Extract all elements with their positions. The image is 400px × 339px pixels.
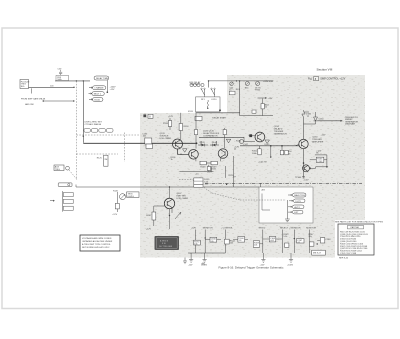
wire from plug-in bbox=[29, 86, 75, 88]
relay coil bbox=[201, 99, 217, 109]
swp control ref note bbox=[308, 77, 346, 81]
triangle D150 bbox=[265, 140, 270, 143]
supply leg G bbox=[308, 230, 318, 254]
svg-text:K120: K120 bbox=[212, 99, 218, 101]
divider box D159 bbox=[194, 178, 210, 186]
svg-text:+12V: +12V bbox=[321, 135, 327, 137]
option box 3 bbox=[63, 206, 73, 210]
svg-text:LEVEL: LEVEL bbox=[128, 196, 135, 198]
resistor R58 bbox=[229, 91, 235, 95]
wire comparator top rail bbox=[199, 136, 244, 138]
svg-text:TRIG: TRIG bbox=[255, 90, 260, 92]
pot arrow R168 bbox=[175, 212, 181, 219]
svg-text:TRIG: TRIG bbox=[55, 169, 60, 171]
box C63 on rail bbox=[252, 110, 256, 113]
svg-text:MONITOR: MONITOR bbox=[306, 228, 316, 230]
svg-text:Fig.: Fig. bbox=[308, 78, 312, 81]
label Q167 bbox=[177, 193, 189, 200]
knob range 1 bbox=[89, 86, 106, 90]
wire Q167 emitter bbox=[170, 208, 173, 230]
junction at relay out bbox=[219, 109, 221, 111]
switch S167 bbox=[58, 183, 72, 187]
svg-text:SET NORM LEVEL AT 0 VDC: SET NORM LEVEL AT 0 VDC bbox=[82, 246, 110, 249]
box delay start bbox=[195, 116, 227, 120]
transistor Q150 bbox=[255, 132, 265, 142]
pot R60 bbox=[229, 82, 234, 92]
svg-text:SEE PARTS LIST FOR SEMICONDUCT: SEE PARTS LIST FOR SEMICONDUCTOR TYPES bbox=[335, 221, 383, 224]
ground leg E2 bbox=[287, 253, 294, 266]
svg-text:+100V: +100V bbox=[287, 264, 294, 266]
svg-text:TP160: TP160 bbox=[295, 177, 302, 179]
junction dot bbox=[226, 184, 227, 185]
svg-text:DIAGRAM: DIAGRAM bbox=[345, 123, 355, 126]
svg-text:Section VIII: Section VIII bbox=[317, 67, 333, 71]
svg-text:+12V: +12V bbox=[260, 264, 266, 266]
ground leg A2 bbox=[188, 253, 225, 266]
dashed link mid bbox=[76, 134, 140, 136]
svg-text:SWP CONTROL +12V: SWP CONTROL +12V bbox=[320, 78, 345, 81]
wire relay feed bbox=[209, 81, 231, 88]
wire long vertical bbox=[239, 81, 241, 116]
option box 2 bbox=[63, 199, 73, 203]
resistor R149 bbox=[211, 161, 217, 168]
island ground bbox=[285, 200, 290, 222]
wire top rail gray bbox=[230, 80, 273, 82]
svg-text:MONITOR: MONITOR bbox=[203, 228, 213, 230]
capacitor C164 bbox=[263, 237, 283, 243]
resistor R64 bbox=[261, 99, 269, 116]
svg-text:R159: R159 bbox=[229, 175, 235, 177]
wire branch to zener bbox=[304, 112, 316, 124]
supply leg A bbox=[194, 230, 201, 254]
label R136 bbox=[171, 157, 177, 161]
svg-text:MS 8-17: MS 8-17 bbox=[313, 253, 322, 255]
capacitor C59 bbox=[58, 68, 63, 75]
cap below Q164 bbox=[302, 177, 305, 178]
label Q150 bbox=[274, 126, 287, 136]
dashed diag link bbox=[69, 170, 77, 180]
relay box K120 bbox=[196, 97, 220, 112]
supply leg B bbox=[205, 230, 206, 254]
svg-text:GENERATOR: GENERATOR bbox=[274, 132, 287, 135]
svg-text:AND SW: AND SW bbox=[25, 103, 33, 106]
wire Q160 base bbox=[295, 145, 299, 146]
svg-text:R167: R167 bbox=[146, 215, 152, 217]
knob range 2 bbox=[89, 92, 105, 96]
svg-text:DELAY TIME: DELAY TIME bbox=[96, 77, 109, 80]
wire emitter bus down bbox=[206, 163, 213, 172]
dashed diag to island bbox=[212, 193, 240, 200]
wire stub x211 up bbox=[212, 166, 226, 172]
wire left column bbox=[82, 81, 84, 143]
svg-text:+12V: +12V bbox=[168, 116, 174, 118]
wire Q160 collector bbox=[303, 117, 305, 139]
svg-text:DELAY START: DELAY START bbox=[213, 116, 228, 119]
ref box 8 bbox=[143, 114, 153, 118]
svg-text:R140: R140 bbox=[236, 141, 242, 143]
wire comparator collectors bbox=[196, 137, 225, 148]
svg-text:FOLLOWER: FOLLOWER bbox=[160, 138, 172, 140]
svg-text:+ CONTROL: + CONTROL bbox=[221, 228, 234, 230]
transistor Q160 bbox=[299, 139, 308, 148]
transistor Q167 bbox=[164, 198, 174, 208]
white island box bbox=[259, 187, 313, 223]
svg-text:+12V: +12V bbox=[191, 228, 197, 230]
svg-text:D145: D145 bbox=[265, 144, 271, 146]
diode D160 bbox=[302, 110, 312, 118]
pot B50 wafers bbox=[190, 83, 204, 86]
transistor Q133 bbox=[173, 139, 183, 149]
svg-text:TRIG'D: TRIG'D bbox=[258, 228, 265, 230]
supply leg F bbox=[294, 230, 295, 254]
svg-text:R134: R134 bbox=[184, 126, 190, 128]
svg-text:+12V: +12V bbox=[110, 89, 116, 91]
svg-text:+12V: +12V bbox=[207, 171, 213, 173]
svg-text:REF 8-16: REF 8-16 bbox=[339, 257, 349, 259]
diode D144 bbox=[210, 142, 219, 147]
svg-text:DLY TRIG GEN: DLY TRIG GEN bbox=[159, 246, 173, 248]
svg-text:K120: K120 bbox=[188, 111, 194, 113]
ground gA bbox=[183, 258, 187, 264]
svg-text:AMPLIFIER: AMPLIFIER bbox=[312, 140, 323, 143]
arrow out Q164 bbox=[310, 168, 316, 169]
resistor R147 bbox=[112, 192, 119, 216]
resistor R163 box bbox=[316, 157, 324, 163]
option box 1 bbox=[63, 193, 73, 197]
dashed mech link bbox=[75, 81, 77, 180]
pot B50 label bbox=[190, 81, 202, 86]
junction box Q150 base bbox=[249, 134, 252, 137]
wire down x225 bbox=[224, 170, 226, 178]
divider ladder rows bbox=[194, 184, 203, 187]
transistor Q145 bbox=[189, 150, 199, 160]
svg-text:COMPARATOR: COMPARATOR bbox=[203, 134, 218, 137]
diode D143 bbox=[198, 142, 208, 147]
svg-text:C168: C168 bbox=[325, 239, 331, 241]
swp gate wire bbox=[43, 100, 75, 101]
dash-dot chassis line bbox=[205, 182, 362, 184]
resistor R133 bbox=[163, 118, 172, 130]
svg-text:Figure 8-16. Delayed Trigger G: Figure 8-16. Delayed Trigger Generator S… bbox=[219, 266, 284, 270]
resistor R134 bbox=[179, 113, 189, 140]
ground leg D2 bbox=[260, 253, 266, 266]
supply leg E bbox=[282, 230, 289, 254]
svg-text:+100V: +100V bbox=[201, 264, 208, 266]
switch contact row bbox=[84, 129, 113, 133]
svg-text:D143: D143 bbox=[200, 142, 206, 144]
svg-text:-12V: -12V bbox=[188, 264, 193, 266]
wire Q133 emitter to Q145 bbox=[178, 149, 189, 154]
plug-in connector box bbox=[20, 80, 30, 89]
wire x233 down bbox=[233, 156, 235, 187]
island inner wire bbox=[262, 194, 270, 211]
arrow into bracket bbox=[50, 200, 55, 201]
label Q133 bbox=[160, 133, 172, 140]
knob link wire bbox=[106, 80, 108, 92]
svg-text:CTR ADJ RANGE: CTR ADJ RANGE bbox=[85, 123, 102, 126]
wire below relay bbox=[196, 112, 240, 114]
svg-text:8 16: 8 16 bbox=[162, 243, 166, 245]
ground leg B2 bbox=[201, 253, 208, 266]
svg-text:OBTAINED AS SHOWN UNDER: OBTAINED AS SHOWN UNDER bbox=[82, 240, 113, 243]
trig level box bbox=[127, 192, 139, 198]
svg-text:B1 A1: B1 A1 bbox=[94, 98, 100, 101]
svg-text:C163: C163 bbox=[317, 161, 323, 163]
wire main rail bbox=[240, 145, 299, 147]
svg-text:PART A8: PART A8 bbox=[351, 226, 360, 229]
trig level pot R145 bbox=[113, 190, 126, 199]
svg-text:+0.45 TD: +0.45 TD bbox=[258, 161, 267, 163]
triangle sym gate bbox=[183, 149, 188, 152]
svg-text:C147: C147 bbox=[243, 144, 249, 146]
svg-text:C160: C160 bbox=[319, 118, 325, 120]
wire lower rail bbox=[240, 115, 273, 117]
resistor R142 bbox=[224, 128, 226, 137]
resistor R141 bbox=[195, 113, 197, 138]
dashed pickoff line bbox=[179, 180, 212, 193]
svg-text:RLY: RLY bbox=[201, 99, 206, 101]
island dashed entry bbox=[240, 199, 286, 201]
island knob 4 bbox=[288, 210, 303, 214]
label comparator bbox=[203, 130, 220, 137]
wire Q160 emitter down bbox=[303, 149, 305, 178]
svg-text:A TRIG SWP TYPE CONTROL: A TRIG SWP TYPE CONTROL bbox=[82, 243, 112, 246]
label to sweep bbox=[345, 117, 358, 126]
transistor Q164 bbox=[303, 165, 310, 172]
switch contacts bbox=[201, 88, 215, 97]
junction into Q150 bbox=[250, 135, 252, 137]
knob range 3 bbox=[89, 98, 103, 102]
parts table box bbox=[338, 224, 374, 255]
level control labels bbox=[85, 121, 103, 125]
transistor Q146 bbox=[218, 149, 228, 159]
capacitor C166 bbox=[205, 237, 221, 243]
svg-text:+12V: +12V bbox=[112, 214, 118, 216]
svg-text:A TRIG B: A TRIG B bbox=[160, 239, 169, 242]
svg-text:1M: 1M bbox=[104, 159, 107, 161]
svg-text:1 RANGE: 1 RANGE bbox=[94, 87, 104, 90]
svg-text:+12V: +12V bbox=[146, 228, 152, 230]
svg-text:FOLLOWER: FOLLOWER bbox=[177, 198, 189, 200]
svg-text:C152 C167 C168: C152 C167 C168 bbox=[340, 253, 357, 255]
wire to Q150 base bbox=[244, 137, 256, 141]
aux trig in box bbox=[54, 165, 64, 171]
zener VR160 bbox=[314, 112, 325, 124]
resistor R154 bbox=[280, 146, 292, 156]
pot B61 bbox=[245, 82, 250, 90]
resistor R150 bbox=[252, 146, 261, 155]
svg-text:R151: R151 bbox=[211, 169, 217, 171]
shaded circuit region bbox=[140, 75, 365, 258]
wire mid bus bbox=[179, 171, 208, 173]
arrow to sweep gen bbox=[318, 120, 343, 121]
wire emitters join bbox=[196, 157, 221, 161]
capacitor C167 bbox=[297, 239, 305, 244]
resistor R59 bbox=[56, 75, 69, 81]
wire arrow mid bbox=[258, 97, 267, 98]
svg-text:-0.5V: -0.5V bbox=[304, 180, 310, 182]
connector J167 bbox=[66, 166, 70, 170]
svg-text:AUTO: AUTO bbox=[294, 206, 300, 209]
dashed link low bbox=[76, 153, 118, 155]
knob DELAY TIME bbox=[94, 76, 109, 80]
ground gB bbox=[201, 262, 205, 264]
svg-text:+100V: +100V bbox=[267, 81, 274, 83]
wire bus top bbox=[55, 80, 90, 82]
svg-text:MAIN TRIG: MAIN TRIG bbox=[294, 194, 305, 197]
svg-text:SELECT: SELECT bbox=[280, 228, 289, 230]
note box bbox=[80, 235, 120, 251]
supply leg C bbox=[224, 230, 236, 254]
wire bus to base bbox=[169, 187, 171, 198]
supply leg D bbox=[253, 230, 262, 254]
pot circle R140 bbox=[236, 140, 244, 144]
wire down x270 bbox=[270, 146, 272, 158]
main signal wire bbox=[83, 142, 196, 144]
capacitor C168 bbox=[317, 238, 331, 243]
svg-text:SIG: SIG bbox=[21, 86, 25, 88]
label Q160 bbox=[312, 136, 323, 143]
island wire up bbox=[260, 183, 262, 187]
resistor R148 bbox=[200, 161, 206, 168]
svg-text:MULT 1: MULT 1 bbox=[94, 94, 102, 96]
capacitor C131 bbox=[142, 133, 152, 148]
svg-text:R148: R148 bbox=[200, 167, 206, 169]
dashed vertical link bbox=[123, 133, 125, 162]
wire R163 loop bbox=[310, 155, 327, 167]
island knob 2 bbox=[289, 199, 305, 203]
trig bus wire bbox=[76, 186, 259, 188]
resistor R167 bbox=[146, 206, 156, 230]
svg-text:+12V: +12V bbox=[268, 98, 274, 100]
svg-text:FROM SWP GATE VIA 48: FROM SWP GATE VIA 48 bbox=[21, 97, 46, 100]
wire Q167 left bbox=[154, 205, 165, 207]
resistor R151 mid bbox=[207, 167, 217, 171]
svg-text:R145: R145 bbox=[113, 190, 119, 192]
island knob 1 bbox=[288, 193, 306, 197]
pot R62 bbox=[255, 82, 261, 92]
svg-text:DLY'D: DLY'D bbox=[295, 201, 301, 203]
island knob 3 bbox=[288, 205, 304, 209]
triangle ref bbox=[226, 139, 231, 143]
svg-text:+ MONITOR: + MONITOR bbox=[289, 228, 301, 230]
resistor R125 bbox=[97, 155, 108, 166]
ref box MS bbox=[312, 250, 326, 255]
svg-text:VOLTAGES AND WFM CONDS: VOLTAGES AND WFM CONDS bbox=[82, 237, 112, 240]
wire stub down bbox=[31, 88, 33, 93]
selector bracket bbox=[61, 191, 63, 212]
svg-text:R125: R125 bbox=[97, 157, 103, 159]
svg-text:R133: R133 bbox=[163, 123, 169, 125]
capacitor C160b bbox=[233, 237, 248, 243]
